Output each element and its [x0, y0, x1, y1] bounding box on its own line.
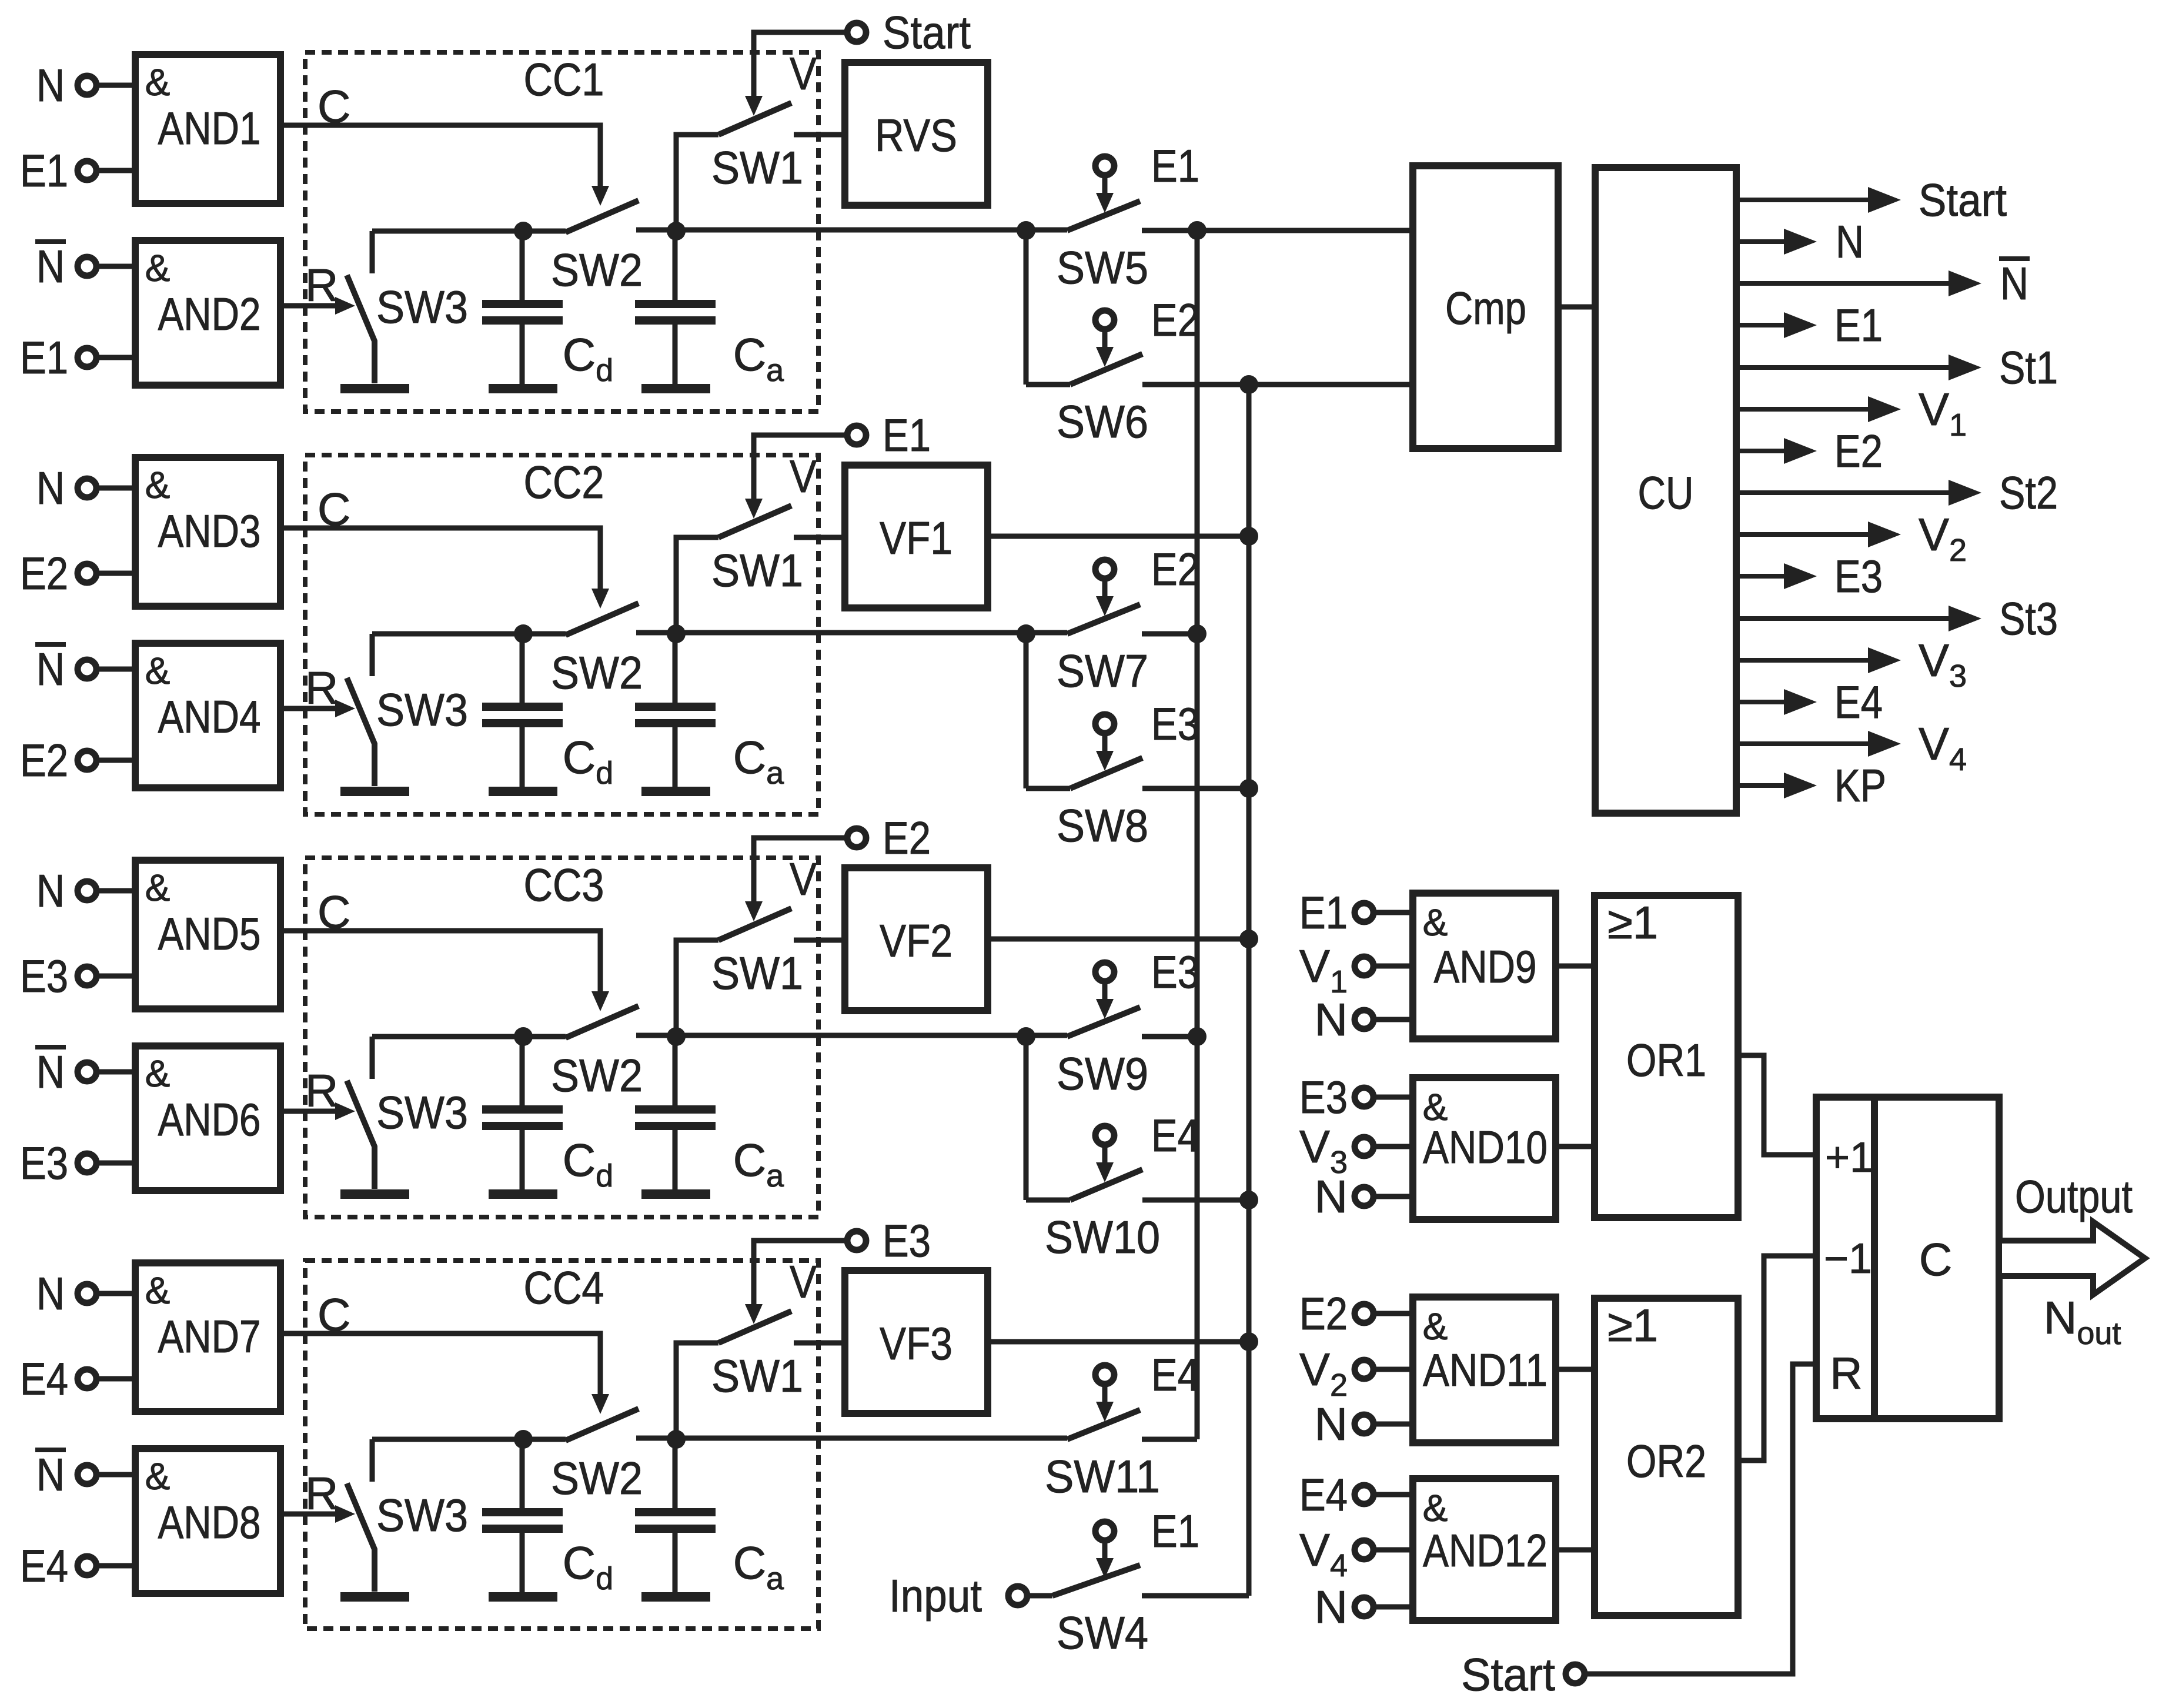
svg-text:&: & [1423, 1305, 1448, 1348]
svg-text:VF3: VF3 [880, 1318, 952, 1369]
ground (Cd of CC3) [489, 1189, 557, 1199]
node E1 input terminal (AND9) [1299, 887, 1373, 938]
svg-text:VF1: VF1 [880, 512, 952, 564]
svg-text:VF2: VF2 [880, 915, 952, 967]
wire vertical net B (lower switches / VF outputs to Cmp input 2) [1239, 375, 1258, 1596]
node Start terminal (row 1) [847, 6, 971, 58]
svg-text:AND2: AND2 [158, 288, 261, 340]
svg-text:CC2: CC2 [524, 456, 604, 508]
node E1 input terminal (AND1) [20, 145, 96, 196]
svg-text:AND12: AND12 [1423, 1525, 1548, 1576]
svg-text:SW10: SW10 [1045, 1211, 1160, 1263]
wire CU output St2 [1736, 467, 2058, 519]
svg-text:E4: E4 [1834, 676, 1883, 728]
node V1 input terminal (AND9) [1299, 940, 1373, 1000]
svg-text:N: N [36, 1268, 65, 1319]
wire V control input of SW1 (row 2) [745, 435, 847, 519]
svg-text:SW8: SW8 [1057, 800, 1148, 851]
svg-text:N: N [36, 240, 65, 292]
wire C output of AND1 [280, 81, 609, 206]
switch SW8 [1026, 758, 1249, 851]
ground (SW3 of CC2) [340, 787, 409, 796]
wire [1373, 1492, 1413, 1498]
and-gate AND10 [1413, 1078, 1556, 1219]
wire OR2 output to −1 [1738, 1256, 1816, 1460]
svg-text:SW2: SW2 [551, 1452, 643, 1504]
wire CU output E3 [1736, 550, 1883, 602]
and-gate AND12 [1413, 1479, 1556, 1620]
node N input terminal (AND12) [1315, 1581, 1373, 1633]
svg-text:&: & [145, 1052, 171, 1095]
svg-text:C: C [317, 81, 350, 132]
svg-text:≥1: ≥1 [1607, 897, 1658, 948]
and-gate AND4 [135, 643, 280, 788]
wire [1373, 1144, 1413, 1149]
svg-text:CU: CU [1638, 467, 1694, 519]
svg-text:Ca: Ca [733, 1134, 784, 1194]
wire [1373, 1547, 1413, 1553]
wire output of AND12 [1556, 1547, 1595, 1553]
svg-text:−1: −1 [1824, 1235, 1872, 1282]
node N&#773; input terminal (AND8) [35, 1449, 96, 1500]
wire output of VF1 [988, 527, 1258, 546]
svg-text:E2: E2 [883, 812, 931, 864]
svg-text:Output: Output [2015, 1171, 2133, 1222]
switch SW1 (row 2) [676, 506, 845, 634]
switch SW7 [1057, 604, 1197, 697]
svg-text:N: N [1315, 1398, 1348, 1450]
ground (Cd of CC4) [489, 1592, 557, 1602]
svg-text:N: N [2000, 258, 2028, 309]
wire E1 control arrow (SW5) [1096, 175, 1114, 213]
node E1 terminal (above SW5) [1095, 140, 1199, 192]
node E2 terminal (row 3) [847, 812, 931, 864]
and-gate AND3 [135, 457, 280, 606]
wire E2 control arrow (SW6) [1096, 329, 1114, 367]
svg-text:N: N [36, 643, 65, 695]
svg-text:N: N [36, 462, 65, 514]
wire [96, 1069, 135, 1075]
capacitor Cd (CC4) [482, 1439, 613, 1596]
svg-text:N: N [36, 865, 65, 917]
switch SW2 (CC3) [551, 1006, 1067, 1101]
switch SW3 (CC2) [347, 634, 468, 786]
svg-text:&: & [145, 650, 171, 692]
node V4 input terminal (AND12) [1299, 1524, 1373, 1583]
wire [1373, 1422, 1413, 1427]
svg-text:St3: St3 [1999, 593, 2058, 644]
wire E2 control arrow (SW7) [1096, 579, 1114, 616]
node E3 terminal (row 4) [847, 1215, 931, 1266]
node E1 terminal (row 2) [847, 409, 931, 461]
svg-text:N: N [1836, 216, 1864, 268]
svg-text:V4: V4 [1299, 1524, 1348, 1583]
svg-text:E4: E4 [20, 1540, 68, 1592]
wire CU output V2 [1736, 509, 1967, 568]
switch SW6 [1026, 354, 1413, 447]
svg-text:E1: E1 [1151, 140, 1199, 192]
node N input terminal (AND1) [36, 59, 96, 111]
wire output of AND10 [1556, 1144, 1595, 1149]
ground (SW3 of CC3) [340, 1189, 409, 1199]
svg-text:E2: E2 [1299, 1288, 1348, 1339]
ground (Cd of CC1) [489, 384, 557, 393]
capacitor Ca (CC1) [635, 231, 784, 388]
svg-text:C: C [317, 483, 350, 535]
svg-text:E4: E4 [1151, 1349, 1199, 1401]
node E4 input terminal (AND12) [1299, 1469, 1373, 1520]
svg-text:OR2: OR2 [1626, 1435, 1706, 1487]
node V2 input terminal (AND11) [1299, 1343, 1373, 1403]
wire [96, 1472, 135, 1478]
wire C output of AND3 [280, 483, 609, 609]
and-gate AND2 [135, 240, 280, 385]
svg-text:Nout: Nout [2044, 1292, 2121, 1351]
svg-text:SW3: SW3 [376, 1087, 468, 1138]
svg-text:SW11: SW11 [1045, 1450, 1160, 1502]
wire node bus (CC2) [372, 624, 686, 643]
svg-text:R: R [305, 662, 338, 714]
wire node bus (CC3) [372, 1027, 686, 1046]
node N&#773; input terminal (AND2) [35, 240, 96, 292]
svg-text:Cd: Cd [563, 1134, 613, 1194]
svg-text:N: N [36, 59, 65, 111]
svg-text:AND10: AND10 [1423, 1121, 1548, 1173]
svg-text:E2: E2 [1151, 294, 1199, 346]
wire [96, 168, 135, 173]
node N input terminal (AND7) [36, 1268, 96, 1319]
capacitor-cell block CC1 (dashed) [305, 52, 818, 412]
wire pair link SW7-SW8 [1017, 624, 1035, 788]
wire [1373, 1017, 1413, 1022]
and-gate AND8 [135, 1449, 280, 1593]
node E4 input terminal (AND8) [20, 1540, 96, 1592]
svg-text:AND5: AND5 [158, 908, 261, 960]
counter C [1816, 1097, 1999, 1419]
svg-text:AND6: AND6 [158, 1094, 261, 1145]
wire [96, 758, 135, 763]
svg-text:N: N [36, 1449, 65, 1500]
node E3 input terminal (AND5) [20, 950, 96, 1002]
node E2 terminal (above SW6) [1095, 294, 1199, 346]
svg-text:E2: E2 [1834, 425, 1883, 477]
svg-text:N: N [1315, 1171, 1348, 1222]
svg-text:SW2: SW2 [551, 647, 643, 698]
svg-text:E2: E2 [1151, 543, 1199, 595]
wire [1373, 1605, 1413, 1610]
svg-text:E3: E3 [883, 1215, 931, 1266]
svg-text:CC1: CC1 [524, 54, 604, 105]
switch SW2 (CC2) [551, 603, 1067, 698]
node E3 input terminal (AND10) [1299, 1071, 1373, 1123]
svg-text:V: V [790, 48, 817, 99]
wire vertical net A (upper switches to Cmp input 1) [1188, 221, 1206, 1439]
wire CU output E2 [1736, 425, 1883, 477]
svg-text:&: & [1423, 901, 1448, 944]
node N input terminal (AND5) [36, 865, 96, 917]
wire [96, 83, 135, 88]
svg-text:Cd: Cd [563, 329, 613, 388]
svg-text:E3: E3 [1151, 698, 1199, 750]
node E2 input terminal (AND3) [20, 547, 96, 599]
and-gate AND7 [135, 1263, 280, 1412]
svg-text:SW3: SW3 [376, 281, 468, 333]
node E2 input terminal (AND4) [20, 734, 96, 786]
svg-text:C: C [317, 1289, 350, 1341]
svg-text:R: R [305, 1065, 338, 1117]
wire R output of AND6 [280, 1065, 355, 1120]
wire pair link SW5-SW6 [1017, 221, 1035, 385]
wire CU output KP [1736, 760, 1886, 811]
node Start terminal (counter reset) [1461, 1649, 1585, 1700]
wire R output of AND4 [280, 662, 355, 717]
and-gate AND9 [1413, 893, 1556, 1039]
svg-text:E2: E2 [20, 734, 68, 786]
ground (Ca of CC4) [641, 1592, 710, 1602]
svg-text:&: & [145, 61, 171, 103]
svg-text:AND1: AND1 [158, 102, 261, 154]
svg-text:Start: Start [1461, 1649, 1555, 1700]
svg-text:CC3: CC3 [524, 859, 604, 911]
svg-text:SW3: SW3 [376, 684, 468, 736]
wire [96, 667, 135, 672]
wire E4 control arrow (SW11) [1096, 1384, 1114, 1422]
wire output of AND9 [1556, 964, 1595, 969]
wire V control input of SW1 (row 3) [745, 838, 847, 921]
svg-text:AND4: AND4 [158, 691, 261, 743]
switch SW1 (row 1) [676, 103, 845, 231]
capacitor Cd (CC3) [482, 1037, 613, 1194]
node V3 input terminal (AND10) [1299, 1121, 1373, 1180]
wire Start to R input [1585, 1364, 1816, 1674]
wire CU output Start [1736, 174, 2007, 226]
wire output of VF3 [988, 1332, 1258, 1351]
block VF3 [845, 1271, 988, 1413]
wire V control input of SW1 (row 4) [745, 1241, 847, 1324]
svg-text:E3: E3 [20, 950, 68, 1002]
ground (SW3 of CC1) [340, 384, 409, 393]
wire [96, 1563, 135, 1569]
svg-text:V: V [790, 1256, 817, 1308]
wire [96, 486, 135, 491]
svg-text:C: C [1919, 1234, 1952, 1285]
svg-text:SW2: SW2 [551, 1049, 643, 1101]
svg-text:&: & [145, 464, 171, 506]
ground (Ca of CC2) [641, 787, 710, 796]
ground (Ca of CC3) [641, 1189, 710, 1199]
svg-text:V2: V2 [1299, 1343, 1348, 1403]
svg-text:SW1: SW1 [711, 544, 803, 596]
wire CU output E1 [1736, 299, 1883, 351]
node N input terminal (AND3) [36, 462, 96, 514]
wire CU output St1 [1736, 342, 2058, 393]
wire [96, 974, 135, 979]
capacitor Cd (CC1) [482, 231, 613, 388]
svg-text:SW3: SW3 [376, 1489, 468, 1541]
wire [96, 888, 135, 894]
wire CU output N&#773; [1736, 258, 2030, 309]
or-gate OR1 [1595, 895, 1738, 1218]
svg-text:N: N [36, 1046, 65, 1098]
and-gate AND5 [135, 860, 280, 1009]
wire output of VF2 [988, 930, 1258, 948]
svg-text:E3: E3 [1834, 550, 1883, 602]
node E4 terminal (above SW11) [1095, 1349, 1199, 1401]
svg-text:AND3: AND3 [158, 505, 261, 557]
switch SW1 (row 3) [676, 908, 845, 1037]
svg-text:SW1: SW1 [711, 142, 803, 193]
svg-text:Cd: Cd [563, 1537, 613, 1596]
svg-text:St2: St2 [1999, 467, 2058, 519]
switch SW2 (CC1) [551, 200, 1067, 296]
svg-text:N: N [1315, 994, 1348, 1045]
svg-text:Input: Input [889, 1570, 982, 1622]
svg-text:V3: V3 [1919, 634, 1967, 694]
node N input terminal (AND10) [1315, 1171, 1373, 1222]
svg-text:E2: E2 [20, 547, 68, 599]
wire [1373, 1311, 1413, 1316]
wire CU output St3 [1736, 593, 2058, 644]
capacitor Cd (CC2) [482, 634, 613, 791]
wire E3 control arrow (SW9) [1096, 981, 1114, 1019]
wire [1373, 1095, 1413, 1100]
capacitor Ca (CC2) [635, 634, 784, 791]
wire [1373, 1367, 1413, 1372]
node E3 terminal (above SW9) [1095, 946, 1199, 998]
svg-text:R: R [1830, 1349, 1863, 1399]
capacitor Ca (CC4) [635, 1439, 784, 1596]
node E3 terminal (above SW8) [1095, 698, 1199, 750]
svg-text:SW1: SW1 [711, 1350, 803, 1402]
svg-text:RVS: RVS [875, 109, 957, 161]
svg-text:&: & [1423, 1487, 1448, 1529]
svg-text:SW4: SW4 [1057, 1607, 1148, 1659]
switch SW11 [1045, 1410, 1197, 1502]
svg-text:Ca: Ca [733, 1537, 784, 1596]
svg-text:E3: E3 [1299, 1071, 1348, 1123]
svg-text:Start: Start [1919, 174, 2007, 226]
wire R output of AND8 [280, 1468, 355, 1523]
ground (Cd of CC2) [489, 787, 557, 796]
svg-text:V1: V1 [1299, 940, 1348, 1000]
svg-text:SW6: SW6 [1057, 396, 1148, 447]
and-gate AND11 [1413, 1297, 1556, 1443]
switch SW3 (CC3) [347, 1037, 468, 1189]
svg-text:N: N [1315, 1581, 1348, 1633]
node E1 input terminal (AND2) [20, 332, 96, 383]
svg-text:SW9: SW9 [1057, 1048, 1148, 1099]
svg-text:V1: V1 [1919, 383, 1967, 443]
wire CU output V3 [1736, 634, 1967, 694]
capacitor-cell block CC2 (dashed) [305, 455, 818, 814]
wire [96, 571, 135, 576]
block VF1 [845, 465, 988, 608]
svg-text:+1: +1 [1825, 1134, 1873, 1181]
node E3 input terminal (AND6) [20, 1137, 96, 1189]
svg-text:AND11: AND11 [1423, 1344, 1548, 1396]
switch SW2 (CC4) [551, 1409, 1067, 1504]
svg-text:Cmp: Cmp [1445, 282, 1526, 334]
svg-text:R: R [305, 259, 338, 311]
wire R output of AND2 [280, 259, 355, 315]
svg-text:E1: E1 [1834, 299, 1883, 351]
wire [96, 1291, 135, 1296]
wire pair link SW9-SW10 [1017, 1027, 1035, 1200]
svg-text:Ca: Ca [733, 329, 784, 388]
svg-text:E1: E1 [20, 145, 68, 196]
wire Output fat arrow [1999, 1222, 2145, 1295]
svg-text:V: V [790, 853, 817, 905]
svg-text:E3: E3 [20, 1137, 68, 1189]
svg-text:SW5: SW5 [1057, 242, 1148, 293]
svg-text:V: V [790, 450, 817, 502]
svg-text:OR1: OR1 [1626, 1034, 1706, 1086]
switch SW4 [1027, 1565, 1249, 1659]
wire [1373, 964, 1413, 969]
wire Cmp to CU [1558, 305, 1595, 310]
wire C output of AND7 [280, 1289, 609, 1414]
svg-text:E1: E1 [1299, 887, 1348, 938]
node E2 terminal (above SW7) [1095, 543, 1199, 595]
svg-text:SW7: SW7 [1057, 645, 1148, 697]
wire CU output N [1736, 216, 1864, 268]
svg-text:E4: E4 [1299, 1469, 1348, 1520]
svg-text:SW2: SW2 [551, 244, 643, 296]
node N&#773; input terminal (AND4) [35, 643, 96, 695]
wire CU output V1 [1736, 383, 1967, 443]
switch SW9 [1057, 1007, 1197, 1099]
node Input terminal (SW4) [889, 1570, 1027, 1622]
wire V control input of SW1 (row 1) [745, 32, 847, 116]
svg-text:E1: E1 [883, 409, 931, 461]
svg-text:≥1: ≥1 [1607, 1299, 1658, 1351]
wire [96, 264, 135, 269]
svg-text:E4: E4 [20, 1353, 68, 1405]
node E4 input terminal (AND7) [20, 1353, 96, 1405]
or-gate OR2 [1595, 1298, 1738, 1616]
wire [96, 1161, 135, 1166]
wire C output of AND5 [280, 886, 609, 1011]
svg-text:R: R [305, 1468, 338, 1519]
node N&#773; input terminal (AND6) [35, 1046, 96, 1098]
svg-text:C: C [317, 886, 350, 938]
svg-text:&: & [145, 1269, 171, 1312]
svg-text:E1: E1 [20, 332, 68, 383]
svg-text:E1: E1 [1151, 1505, 1199, 1557]
block VF2 [845, 868, 988, 1011]
node E1 terminal (above SW4) [1095, 1505, 1199, 1557]
capacitor-cell block CC4 (dashed) [305, 1261, 818, 1629]
control unit CU [1595, 168, 1736, 813]
wire E4 control arrow (SW10) [1096, 1145, 1114, 1182]
switch SW1 (row 4) [676, 1311, 845, 1439]
wire node bus (CC1) [372, 222, 686, 240]
switch SW3 (CC4) [347, 1439, 468, 1592]
block RVS [845, 62, 988, 205]
svg-text:AND7: AND7 [158, 1311, 261, 1362]
svg-text:E3: E3 [1151, 946, 1199, 998]
svg-text:Start: Start [883, 6, 971, 58]
node E4 terminal (above SW10) [1095, 1109, 1199, 1161]
svg-text:CC4: CC4 [524, 1262, 604, 1313]
wire CU output E4 [1736, 676, 1883, 728]
svg-text:V2: V2 [1919, 509, 1967, 568]
svg-text:Ca: Ca [733, 731, 784, 791]
svg-text:&: & [145, 1455, 171, 1498]
svg-text:V4: V4 [1919, 718, 1967, 777]
svg-text:&: & [145, 247, 171, 289]
and-gate AND6 [135, 1046, 280, 1191]
